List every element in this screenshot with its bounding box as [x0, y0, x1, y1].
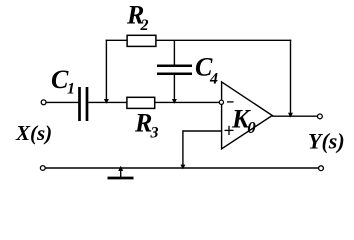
minus sign [227, 101, 234, 103]
svg-text:2: 2 [140, 17, 149, 34]
wire op-amp output [272, 115, 318, 117]
label R2 [126, 1, 149, 34]
wire R3 to op-amp [155, 101, 220, 103]
wire top feedback rail [106, 39, 292, 41]
wire input to C1 [46, 101, 79, 103]
wire C4 branch lower [173, 74, 175, 102]
wire vertical left feedback [105, 40, 107, 103]
svg-text:4: 4 [209, 71, 218, 88]
capacitor C1 [80, 87, 88, 121]
capacitor C4 [157, 66, 192, 74]
wire vertical to ground rail [182, 130, 184, 168]
label K0 [231, 104, 256, 137]
svg-text:0: 0 [247, 118, 256, 137]
wire C4 branch upper [173, 40, 175, 65]
node junction A (arrow down) [104, 99, 109, 104]
label R3 [134, 108, 159, 141]
wire noninverting input [183, 130, 222, 132]
svg-text:1: 1 [67, 81, 75, 98]
wire vertical right feedback [290, 40, 292, 117]
svg-text:X(s): X(s) [15, 121, 52, 145]
node junction E (arrow up) [118, 166, 123, 171]
svg-text:3: 3 [150, 124, 159, 141]
inverting input bubble [219, 100, 223, 104]
op-amp U1 triangle [222, 82, 273, 149]
terminal output [318, 114, 323, 119]
resistor R3 [127, 97, 155, 108]
wire C1 to R3 [88, 101, 127, 103]
label C4 [195, 52, 218, 87]
ground [108, 168, 134, 178]
plus sign [225, 126, 234, 135]
terminal input [41, 100, 46, 105]
resistor R2 [127, 35, 156, 46]
label C1 [51, 65, 75, 98]
svg-text:Y(s): Y(s) [308, 128, 345, 153]
node junction B (arrow down) [172, 99, 177, 104]
terminal ground right [319, 166, 324, 171]
node junction C (arrow down) [180, 165, 185, 170]
wire ground rail [45, 167, 318, 169]
node junction D (arrow down) [288, 113, 293, 118]
terminal ground left [40, 166, 45, 171]
